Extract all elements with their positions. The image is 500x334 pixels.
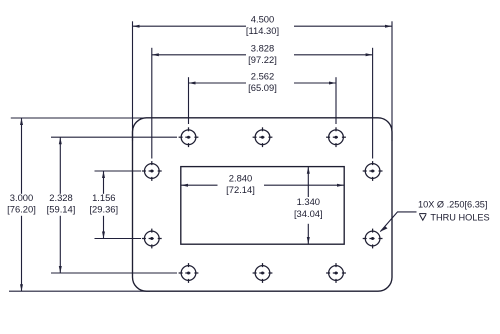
svg-text:2.328: 2.328: [49, 192, 72, 203]
svg-text:3.000: 3.000: [10, 192, 33, 203]
svg-text:[59.14]: [59.14]: [47, 204, 76, 215]
svg-text:[29.36]: [29.36]: [89, 204, 118, 215]
svg-text:2.562: 2.562: [251, 70, 274, 81]
svg-text:[76.20]: [76.20]: [7, 204, 36, 215]
svg-text:[97.22]: [97.22]: [248, 54, 277, 65]
svg-text:4.500: 4.500: [251, 14, 274, 25]
svg-text:10X Ø .250[6.35]: 10X Ø .250[6.35]: [418, 199, 487, 209]
svg-text:1.156: 1.156: [92, 192, 115, 203]
svg-text:[65.09]: [65.09]: [248, 82, 277, 93]
svg-text:[114.30]: [114.30]: [246, 25, 279, 36]
svg-text:[34.04]: [34.04]: [294, 208, 323, 219]
svg-text:THRU HOLES: THRU HOLES: [430, 212, 489, 222]
svg-text:3.828: 3.828: [251, 42, 274, 53]
svg-text:2.840: 2.840: [229, 173, 252, 184]
svg-text:1.340: 1.340: [297, 196, 320, 207]
svg-text:[72.14]: [72.14]: [226, 184, 255, 195]
